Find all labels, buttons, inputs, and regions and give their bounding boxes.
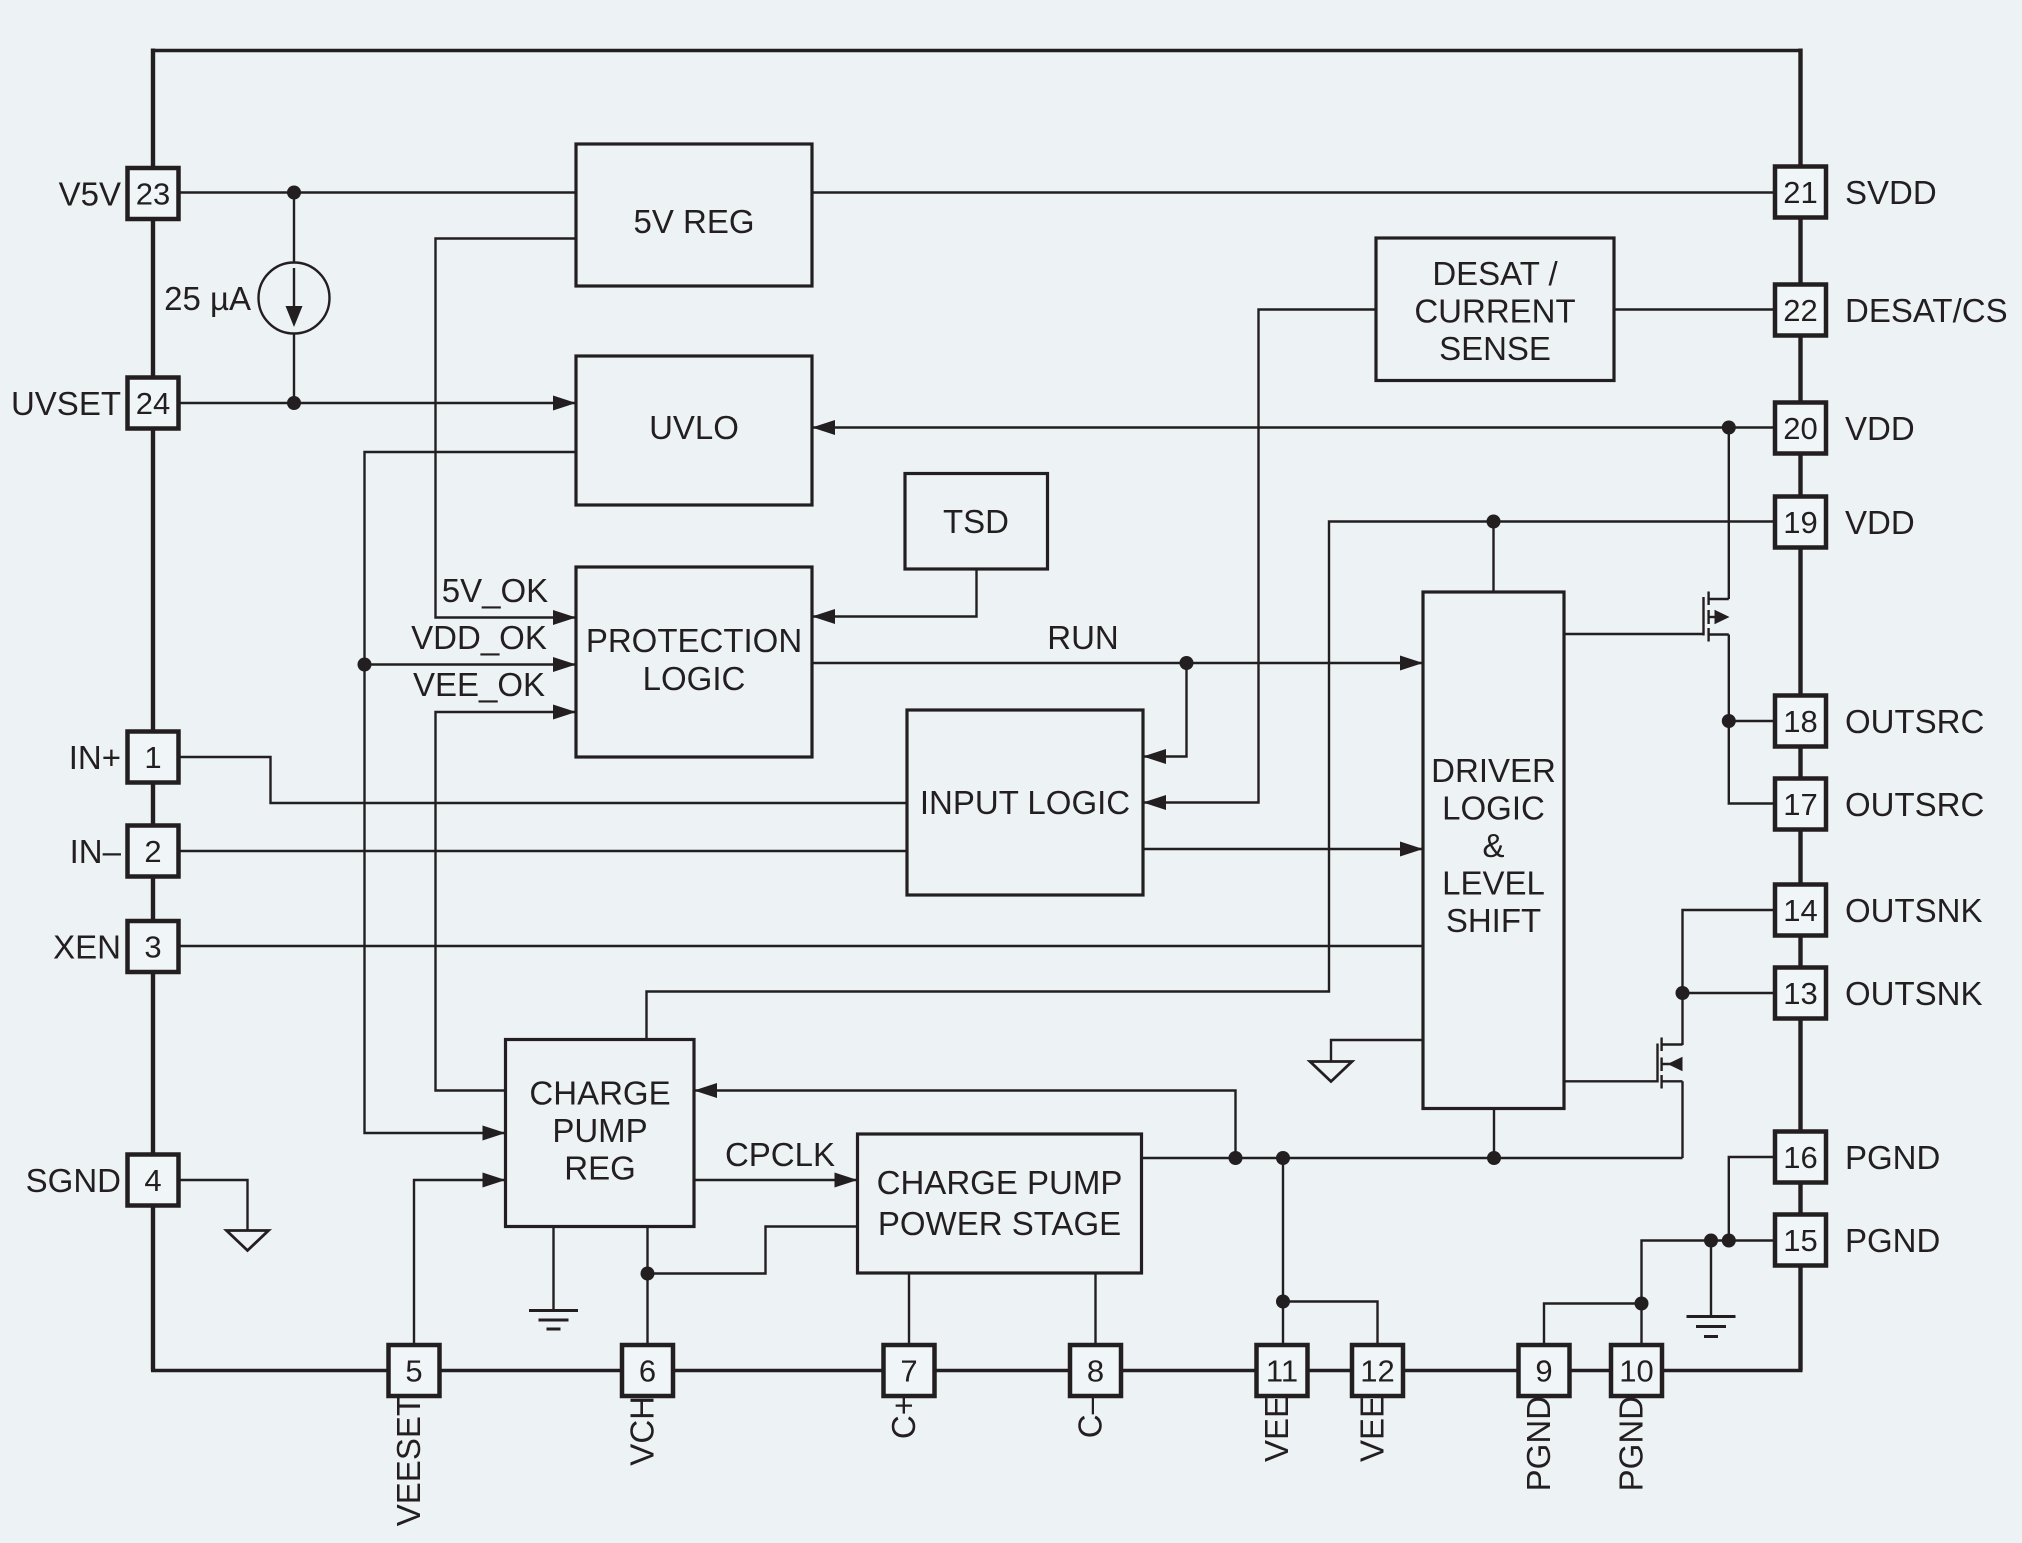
block UVLO: [576, 356, 812, 505]
junction on V5V wire: [287, 186, 301, 200]
arrow RUN into DRIVER LOGIC: [1400, 656, 1423, 671]
transistor Q1 (source follower NMOS): [1704, 592, 1730, 642]
wire PGND node up to pin 15: [1642, 1241, 1776, 1304]
svg-text:CPCLK: CPCLK: [725, 1136, 835, 1173]
wire Q2 source down to VEE bus: [1681, 1081, 1683, 1158]
arrow DESAT into INPUT LOGIC right edge: [1143, 795, 1166, 810]
svg-text:18: 18: [1783, 704, 1817, 739]
svg-text:17: 17: [1783, 787, 1817, 822]
svg-text:TSD: TSD: [943, 503, 1009, 540]
svg-text:VDD: VDD: [1845, 504, 1915, 541]
ground (open triangle at SGND): [227, 1231, 269, 1251]
wire current source top: [293, 193, 295, 263]
wire RUN: PROTECTION LOGIC to DRIVER LOGIC: [812, 662, 1423, 664]
arrow VDD_OK into PROTECTION LOGIC: [553, 657, 576, 672]
junction bus / charge pump feedback: [1229, 1151, 1243, 1165]
wire 5V REG output to pin 21 SVDD: [812, 191, 1775, 193]
svg-text:OUTSNK: OUTSNK: [1845, 892, 1983, 929]
arrow into CHARGE PUMP REG upper left: [483, 1126, 506, 1141]
svg-text:LOGIC: LOGIC: [1442, 790, 1545, 827]
arrow VEESET into CHARGE PUMP REG: [483, 1173, 506, 1188]
pin 6 VCH: [622, 1345, 673, 1396]
svg-text:5V REG: 5V REG: [633, 203, 754, 240]
svg-text:14: 14: [1783, 893, 1817, 928]
wire CPCLK charge pump reg to power stage: [694, 1179, 858, 1181]
svg-text:8: 8: [1087, 1354, 1104, 1389]
svg-text:SHIFT: SHIFT: [1446, 902, 1541, 939]
svg-text:RUN: RUN: [1047, 619, 1119, 656]
junction VDD_OK: [358, 658, 372, 672]
IC outline bottom bus: [151, 1369, 1803, 1372]
wire Q1 source to OUTSRC pins: [1728, 635, 1730, 722]
wire DRIVER LOGIC to analog ground: [1331, 1040, 1423, 1062]
svg-text:PUMP: PUMP: [552, 1112, 647, 1149]
arrow into UVLO left: [553, 396, 576, 411]
svg-text:SVDD: SVDD: [1845, 174, 1937, 211]
IC outline top border: [151, 49, 1803, 52]
wire pin16 branch: [1729, 1157, 1775, 1241]
IC outline left pin column: [151, 49, 155, 1371]
pin 15 PGND: [1775, 1215, 1826, 1266]
wire TSD output to PROTECTION LOGIC: [812, 569, 977, 617]
svg-text:15: 15: [1783, 1223, 1817, 1258]
svg-text:25 µA: 25 µA: [164, 280, 251, 317]
svg-text:OUTSRC: OUTSRC: [1845, 786, 1984, 823]
wire DRIVER LOGIC to Q2 gate: [1564, 1080, 1658, 1082]
wire INPUT LOGIC output to DRIVER LOGIC: [1143, 848, 1423, 850]
pin 16 PGND: [1775, 1132, 1826, 1183]
wire current source bottom to UVSET net: [293, 334, 295, 404]
svg-text:1: 1: [144, 740, 161, 775]
pin 4 SGND: [128, 1155, 179, 1206]
svg-text:&: &: [1482, 827, 1504, 864]
junction PGND earth ground: [1704, 1234, 1718, 1248]
pin 21 SVDD: [1775, 167, 1826, 218]
svg-text:5: 5: [405, 1354, 422, 1389]
IC outline right pin column: [1798, 49, 1802, 1371]
wire DESAT block to INPUT LOGIC: [1143, 310, 1376, 803]
wire to earth ground: [1710, 1241, 1712, 1317]
svg-text:VEE: VEE: [1354, 1396, 1391, 1462]
wire SGND pin4 to analog ground: [179, 1180, 248, 1231]
svg-text:SENSE: SENSE: [1439, 330, 1551, 367]
svg-text:20: 20: [1783, 411, 1817, 446]
svg-text:OUTSNK: OUTSNK: [1845, 975, 1983, 1012]
junction UVSET / current source: [287, 396, 301, 410]
svg-text:PGND: PGND: [1613, 1396, 1650, 1491]
block 5V REG: [576, 144, 812, 286]
pin 1 IN+: [128, 732, 179, 783]
svg-text:POWER STAGE: POWER STAGE: [878, 1205, 1121, 1242]
svg-text:LOGIC: LOGIC: [643, 660, 746, 697]
junction PGND pins 9/10: [1635, 1297, 1649, 1311]
pin 7 C+: [884, 1345, 935, 1396]
pin 18 OUTSRC: [1775, 696, 1826, 747]
svg-text:VEE_OK: VEE_OK: [413, 666, 545, 703]
svg-text:4: 4: [144, 1163, 161, 1198]
pin 9 PGND: [1519, 1345, 1570, 1396]
wire DRIVER LOGIC to Q1 gate: [1564, 633, 1704, 635]
pin 19 VDD: [1775, 497, 1826, 548]
svg-text:UVSET: UVSET: [11, 385, 121, 422]
svg-text:11: 11: [1266, 1354, 1298, 1389]
svg-text:LEVEL: LEVEL: [1442, 865, 1545, 902]
wire XEN pin3 to DRIVER LOGIC: [179, 945, 1424, 947]
pin 17 OUTSRC: [1775, 779, 1826, 830]
wire to pin 12: [1283, 1302, 1378, 1348]
wire DRIVER LOGIC bottom to bus: [1493, 1109, 1495, 1159]
ground (earth ground at PGND): [1687, 1317, 1736, 1337]
svg-text:C–: C–: [1072, 1395, 1109, 1438]
svg-text:PROTECTION: PROTECTION: [586, 622, 802, 659]
wire VDD down to MOSFET Q1 drain: [1728, 428, 1730, 600]
svg-text:3: 3: [144, 930, 161, 965]
svg-text:DESAT/CS: DESAT/CS: [1845, 292, 2008, 329]
wire to pin 17: [1729, 721, 1775, 804]
svg-text:CHARGE: CHARGE: [529, 1075, 670, 1112]
svg-text:VDD: VDD: [1845, 410, 1915, 447]
pin 24 UVSET: [128, 378, 179, 429]
pin 14 OUTSNK: [1775, 885, 1826, 936]
wire VDD pin20 to UVLO: [812, 426, 1775, 428]
wire pin 9 PGND riser: [1544, 1304, 1642, 1348]
svg-text:VDD_OK: VDD_OK: [411, 619, 547, 656]
pin 10 PGND: [1611, 1345, 1662, 1396]
wire to pin 11: [1282, 1302, 1284, 1348]
arrow INPUT LOGIC output into DRIVER LOGIC: [1400, 842, 1423, 857]
svg-text:16: 16: [1783, 1140, 1817, 1175]
ground (open triangle at DRIVER LOGIC): [1310, 1062, 1352, 1082]
block TSD: [905, 474, 1048, 570]
wire pin 10 PGND riser: [1640, 1304, 1642, 1348]
svg-text:24: 24: [136, 386, 170, 421]
svg-text:SGND: SGND: [26, 1162, 121, 1199]
wire VEESET pin5 to CHARGE PUMP REG: [414, 1180, 506, 1347]
wire RUN branch to INPUT LOGIC: [1143, 663, 1187, 757]
svg-text:22: 22: [1783, 293, 1817, 328]
wire into pin 13: [1683, 992, 1776, 994]
pin 5 VEESET: [389, 1345, 440, 1396]
block INPUT LOGIC: [907, 710, 1143, 895]
junction OUTSNK pin13: [1676, 986, 1690, 1000]
wire IN+ pin1 to INPUT LOGIC: [179, 757, 908, 803]
svg-text:VEE: VEE: [1258, 1396, 1295, 1462]
pin 12 VEE: [1352, 1345, 1403, 1396]
svg-text:CHARGE PUMP: CHARGE PUMP: [877, 1164, 1123, 1201]
svg-text:2: 2: [144, 834, 161, 869]
svg-text:IN+: IN+: [69, 739, 121, 776]
svg-text:CURRENT: CURRENT: [1414, 293, 1575, 330]
svg-text:REG: REG: [564, 1150, 636, 1187]
junction OUTSRC pin18: [1722, 714, 1736, 728]
junction VDD pin19 / driver logic: [1487, 515, 1501, 529]
wire VDD pin19 to charge pump reg top: [647, 522, 1776, 1040]
current source I1 25 uA: [259, 263, 330, 334]
svg-text:21: 21: [1783, 175, 1817, 210]
svg-text:INPUT LOGIC: INPUT LOGIC: [920, 784, 1130, 821]
wire UVSET pin24 to UVLO: [179, 402, 577, 404]
wire into pin 18: [1729, 720, 1775, 722]
wire bus to CHARGE PUMP REG right edge: [694, 1091, 1236, 1159]
wire V5V pin23 to 5V REG: [179, 191, 577, 193]
block CHARGE PUMP REG: [506, 1040, 695, 1227]
svg-text:C+: C+: [885, 1396, 922, 1439]
pin 2 IN-: [128, 826, 179, 877]
pin 20 VDD: [1775, 403, 1826, 454]
arrow into CHARGE PUMP REG right edge: [694, 1083, 717, 1098]
wire VEE pins riser: [1282, 1158, 1284, 1302]
junction bus / VEE pins: [1276, 1151, 1290, 1165]
arrow TSD into PROTECTION LOGIC right edge: [812, 609, 835, 624]
arrow VEE_OK into PROTECTION LOGIC: [553, 705, 576, 720]
block PROTECTION LOGIC: [576, 567, 812, 757]
pin 8 C-: [1070, 1345, 1121, 1396]
arrow CPCLK into POWER STAGE: [835, 1173, 858, 1188]
block DRIVER LOGIC &amp; LEVEL SHIFT: [1423, 592, 1564, 1109]
svg-text:UVLO: UVLO: [649, 409, 739, 446]
pin 23 V5V: [128, 168, 179, 219]
pin 13 OUTSNK: [1775, 968, 1826, 1019]
pin 22 DESAT/CS: [1775, 285, 1826, 336]
svg-text:9: 9: [1535, 1354, 1552, 1389]
svg-text:10: 10: [1619, 1354, 1653, 1389]
wire VDD into DRIVER LOGIC top: [1492, 522, 1494, 593]
arrow VDD into UVLO right edge: [812, 420, 835, 435]
wire VEE_OK: CHARGE PUMP REG to PROTECTION LOGIC: [436, 712, 577, 1091]
svg-text:19: 19: [1783, 505, 1817, 540]
block DESAT / CURRENT SENSE: [1376, 238, 1614, 381]
pin 11 VEE: [1257, 1345, 1308, 1396]
svg-text:13: 13: [1783, 976, 1817, 1011]
svg-text:7: 7: [900, 1354, 917, 1389]
svg-text:V5V: V5V: [59, 176, 121, 213]
wire VCH pin6 riser: [646, 1227, 648, 1348]
transistor Q2 (sink MOSFET): [1658, 1038, 1683, 1089]
junction RUN branch: [1180, 656, 1194, 670]
svg-text:PGND: PGND: [1845, 1222, 1940, 1259]
svg-text:VEESET: VEESET: [390, 1396, 427, 1526]
pin 3 XEN: [128, 921, 179, 972]
wire POWER STAGE to pin 7 C+: [908, 1273, 910, 1347]
wire UVLO to VDD_OK column down to CHARGE PUMP REG: [365, 452, 577, 1133]
wire VDD_OK into PROTECTION LOGIC: [365, 663, 577, 665]
wire VCH branch to POWER STAGE left: [648, 1227, 858, 1274]
svg-text:12: 12: [1360, 1354, 1394, 1389]
wire IN- pin2 to INPUT LOGIC: [179, 850, 908, 852]
arrow 5V_OK into PROTECTION LOGIC: [553, 610, 576, 625]
junction PGND pin16 branch: [1722, 1234, 1736, 1248]
wire pin14 OUTSNK down to Q2 drain: [1683, 910, 1776, 1045]
wire VEE bus (power stage to Q2): [1142, 1157, 1683, 1159]
wire POWER STAGE to pin 8 C-: [1094, 1273, 1096, 1347]
arrow RUN into INPUT LOGIC right edge: [1143, 749, 1166, 764]
svg-text:VCH: VCH: [624, 1396, 661, 1466]
svg-text:DESAT /: DESAT /: [1432, 255, 1558, 292]
wire 5V_OK: 5V REG to PROTECTION LOGIC: [436, 239, 577, 618]
svg-text:XEN: XEN: [53, 929, 121, 966]
block CHARGE PUMP POWER STAGE: [858, 1134, 1142, 1273]
ground (signal ground under CHARGE PUMP REG): [529, 1311, 578, 1330]
wire CHARGE PUMP REG to signal ground: [552, 1227, 554, 1311]
svg-text:5V_OK: 5V_OK: [442, 572, 548, 609]
junction bus / driver logic: [1487, 1151, 1501, 1165]
junction VDD pin20: [1722, 421, 1736, 435]
junction VCH: [641, 1267, 655, 1281]
svg-text:OUTSRC: OUTSRC: [1845, 703, 1984, 740]
svg-text:6: 6: [639, 1354, 656, 1389]
svg-text:23: 23: [136, 177, 170, 212]
junction VEE split: [1276, 1295, 1290, 1309]
wire DESAT block to pin 22 DESAT/CS: [1614, 308, 1775, 310]
svg-text:DRIVER: DRIVER: [1431, 752, 1556, 789]
svg-text:IN–: IN–: [70, 833, 122, 870]
svg-text:PGND: PGND: [1520, 1396, 1557, 1491]
svg-text:PGND: PGND: [1845, 1139, 1940, 1176]
